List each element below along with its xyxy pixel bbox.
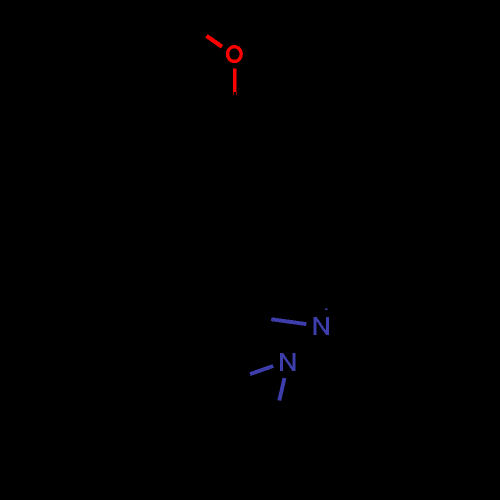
bond C8-N1 (blue half, at N1) [271, 319, 306, 324]
bond O-C1 (red half, below O) [233, 69, 237, 92]
atom N1 (imine nitrogen label) [314, 317, 330, 335]
bond N2-CH3 (black half) [226, 374, 250, 382]
bond N2-C9 (black half) [274, 401, 279, 424]
radical/charge dash above N1 [325, 309, 328, 311]
bond O-C1 (black half, to ring) [233, 92, 237, 108]
aromatic inner line 1 [276, 146, 280, 185]
overdraw fringe right of O-C1 black half [236, 92, 237, 95]
bond C7-C8 (chain, black) [234, 268, 253, 314]
atom N2 (amine nitrogen label) [280, 353, 296, 371]
bond C10-C11 (black) [252, 459, 297, 464]
benzene ring (black, invisible on black) [186, 108, 285, 222]
bond C9-C11 (black) [274, 424, 297, 460]
bond C9-C10 (black) [252, 424, 274, 465]
overdraw fringe left of O-C1 black half [233, 92, 234, 95]
aromatic inner line 3 [195, 122, 229, 142]
bond N2-C9 (blue half, at N2) [279, 378, 284, 401]
bond CH3-O (black half, invisible on black) [190, 24, 207, 36]
bond C8-N1 (black half) [234, 314, 271, 319]
aromatic inner line 2 [195, 194, 229, 214]
bond CH3-O (red half, at O) [207, 36, 223, 47]
bond N2-CH3 (blue half, at N2) [250, 366, 273, 374]
bond C4-C7 (chain, black) [236, 222, 253, 268]
atom O (methoxy oxygen label) [228, 47, 242, 62]
